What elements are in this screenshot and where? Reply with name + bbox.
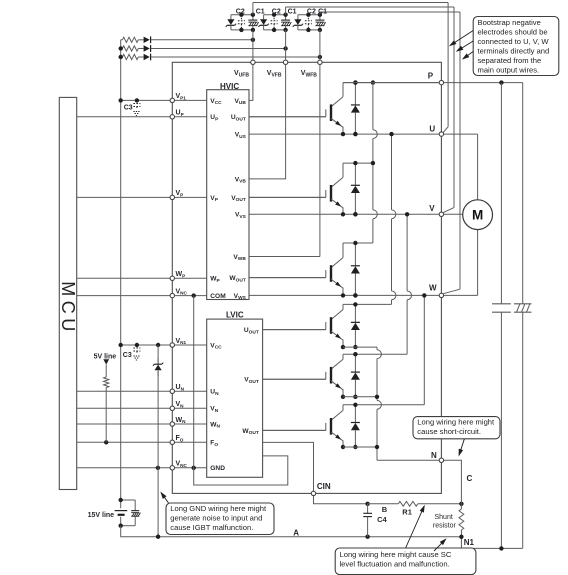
svg-text:main output wires.: main output wires.: [478, 66, 540, 75]
svg-text:C4: C4: [377, 515, 387, 524]
svg-text:generate noise to input and: generate noise to input and: [170, 514, 262, 523]
svg-text:R1: R1: [402, 507, 412, 516]
svg-text:U: U: [429, 124, 435, 133]
svg-text:LVIC: LVIC: [226, 310, 244, 319]
svg-text:cause short-circuit.: cause short-circuit.: [417, 427, 481, 436]
svg-text:N: N: [431, 451, 437, 460]
svg-text:resistor: resistor: [433, 523, 457, 530]
svg-text:level fluctuation and malfunct: level fluctuation and malfunction.: [340, 559, 450, 568]
svg-text:15V line: 15V line: [88, 512, 115, 519]
svg-text:CIN: CIN: [317, 482, 331, 491]
svg-text:C2: C2: [272, 8, 281, 15]
svg-text:connected to U, V, W: connected to U, V, W: [478, 37, 550, 46]
svg-text:cause IGBT malfunction.: cause IGBT malfunction.: [170, 523, 253, 532]
svg-text:C2: C2: [307, 8, 316, 15]
svg-text:electrodes should be: electrodes should be: [478, 28, 548, 37]
svg-text:N1: N1: [464, 538, 475, 547]
svg-text:M: M: [472, 208, 483, 223]
svg-text:C1: C1: [288, 8, 297, 15]
svg-text:C1: C1: [318, 8, 327, 15]
svg-text:Long GND wiring here might: Long GND wiring here might: [170, 504, 267, 513]
svg-text:MCU: MCU: [58, 281, 78, 336]
svg-text:C3: C3: [123, 352, 132, 359]
svg-text:C: C: [467, 474, 473, 483]
svg-text:terminals directly and: terminals directly and: [478, 47, 550, 56]
svg-text:HVIC: HVIC: [220, 82, 239, 91]
svg-text:V: V: [429, 204, 435, 213]
svg-text:Long wiring here might cause S: Long wiring here might cause SC: [340, 550, 452, 559]
svg-text:5V line: 5V line: [94, 353, 117, 360]
svg-text:GND: GND: [210, 465, 225, 472]
svg-text:C3: C3: [124, 104, 133, 111]
svg-text:A: A: [293, 528, 299, 537]
svg-text:Shunt: Shunt: [435, 514, 453, 521]
svg-text:P: P: [428, 72, 434, 81]
svg-text:B: B: [382, 505, 388, 514]
svg-text:C1: C1: [256, 8, 265, 15]
svg-text:C2: C2: [236, 8, 245, 15]
svg-text:W: W: [429, 284, 437, 293]
svg-text:Long wiring here might: Long wiring here might: [417, 418, 495, 427]
svg-text:separated from the: separated from the: [478, 56, 542, 65]
svg-text:COM: COM: [210, 293, 226, 300]
svg-text:Bootstrap negative: Bootstrap negative: [478, 18, 541, 27]
